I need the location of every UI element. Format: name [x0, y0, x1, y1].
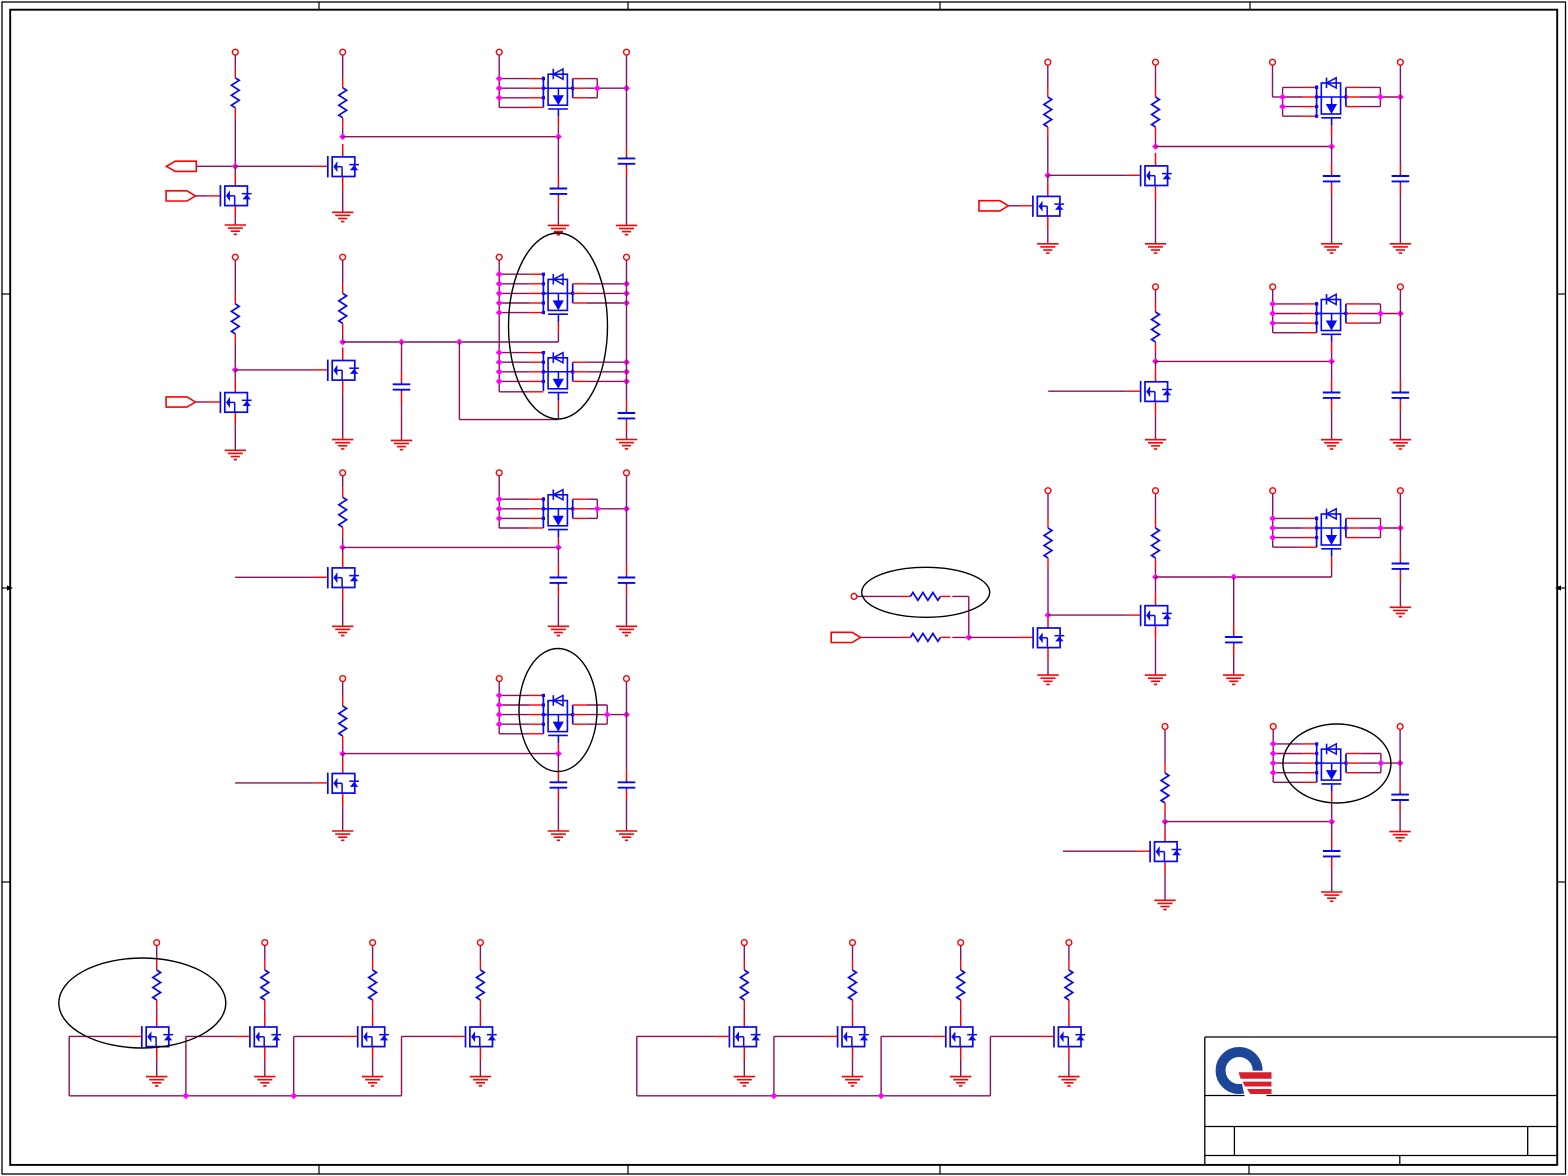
power pin P16 [1153, 59, 1159, 65]
wire [458, 342, 460, 420]
transistor QA2 [250, 1014, 281, 1060]
border tick top [627, 2, 629, 10]
border tick top [939, 2, 941, 10]
switch U7 gate lead [1331, 342, 1333, 361]
wire [372, 1010, 374, 1014]
power pin P7 [496, 254, 502, 260]
wire [342, 393, 344, 440]
net L wire [1165, 821, 1332, 823]
resistor RA2 [261, 960, 269, 1010]
transistor QA1 [142, 1014, 173, 1060]
wire pin [207, 195, 220, 197]
ground [616, 225, 637, 234]
power pin P27 [1162, 724, 1168, 730]
switch U8 output pins [1344, 518, 1400, 537]
wire [499, 106, 528, 108]
net E wire [343, 546, 559, 548]
junction on supply bus [496, 300, 503, 307]
wire [960, 1060, 962, 1077]
junction on supply bus [1270, 769, 1277, 776]
ground [1390, 440, 1411, 449]
switch U7 output pins [1344, 304, 1400, 323]
transistor QA4 [466, 1014, 497, 1060]
junction on output bus [1397, 94, 1404, 101]
junction [878, 1092, 885, 1099]
wire [196, 165, 235, 167]
ground [1390, 244, 1411, 253]
ground [548, 831, 569, 840]
gate drop wire [636, 1036, 638, 1095]
wire pin [128, 1035, 142, 1037]
wire [342, 806, 344, 831]
junction on supply bus [496, 280, 503, 287]
junction on supply bus [496, 271, 503, 278]
switch U9 gate lead [1331, 792, 1333, 822]
wire [342, 537, 344, 547]
ground [1321, 892, 1342, 901]
resistor R8 [1152, 87, 1160, 137]
wire pin [207, 401, 220, 403]
gate wire [990, 1035, 1040, 1037]
gate wire [881, 1035, 932, 1037]
border tick bottom [318, 1165, 320, 1174]
highlight ellipse 1 [509, 233, 608, 419]
capacitor C4 [618, 401, 636, 431]
transistor Q9 [1141, 369, 1172, 415]
wire [1164, 874, 1166, 900]
wire [852, 1060, 854, 1077]
wire pin [1019, 205, 1033, 207]
wire [479, 1010, 481, 1014]
supply bus [498, 55, 500, 107]
junction [398, 339, 405, 346]
junction on output bus [623, 359, 630, 366]
junction on output bus [1397, 310, 1404, 317]
output bus [626, 55, 628, 146]
power pin PA1 [154, 940, 160, 946]
wire [557, 754, 559, 770]
ground [1223, 675, 1244, 684]
gate wire [186, 1035, 236, 1037]
switch U8 gate lead [1331, 557, 1333, 577]
wire [1008, 205, 1019, 207]
transistor Q10 [1033, 615, 1064, 661]
switch U4 left pins [499, 497, 548, 528]
wire [1233, 655, 1235, 675]
resistor RA3 [369, 960, 377, 1010]
junction on supply bus [1269, 310, 1276, 317]
highlight ellipse 2 [519, 649, 597, 772]
ground [391, 440, 412, 449]
gate wire [774, 1035, 824, 1037]
power pin P4 [624, 49, 630, 55]
gate drop wire [989, 1036, 991, 1095]
wire pin [528, 106, 543, 108]
supply bus [1272, 290, 1274, 333]
wire [342, 682, 344, 697]
power pin P1 [232, 49, 238, 55]
wire [499, 733, 528, 735]
resistor R2 [339, 78, 347, 128]
junction [290, 1092, 297, 1099]
wire [1331, 194, 1333, 244]
node F junction [339, 750, 346, 757]
wire [1047, 175, 1049, 183]
wire [857, 595, 901, 597]
junction at switch output [1378, 760, 1385, 767]
junction on supply bus [496, 378, 503, 385]
wire pin [1136, 850, 1150, 852]
wire [1068, 1060, 1070, 1077]
ground [548, 626, 569, 635]
wire [156, 946, 158, 961]
junction on supply bus [496, 368, 503, 375]
junction [555, 544, 562, 551]
transistor QB2 [838, 1014, 869, 1060]
wire [1068, 1010, 1070, 1014]
ground [332, 831, 353, 840]
wire [1047, 661, 1049, 676]
wire pin [344, 1035, 358, 1037]
wire [1155, 352, 1157, 361]
switch U5 gate lead [557, 743, 559, 753]
wire [235, 782, 314, 784]
pmos switch U2 [543, 274, 572, 322]
wire pin [314, 782, 328, 784]
capacitor C3 [393, 372, 411, 402]
ground [616, 831, 637, 840]
wire [1399, 581, 1401, 607]
junction on output bus [623, 378, 630, 385]
wire [968, 596, 970, 637]
border tick right [1557, 881, 1566, 883]
wire [626, 595, 628, 626]
power pin P8 [624, 254, 630, 260]
wire [234, 260, 236, 294]
transistor QB4 [1054, 1014, 1085, 1060]
ground [1154, 900, 1175, 909]
pmos switch U6 [1317, 78, 1346, 126]
wire [401, 402, 403, 441]
switch U2 gate lead [557, 322, 559, 342]
wire [342, 547, 344, 555]
capacitor C11 [1323, 380, 1341, 410]
capacitor C15 [1323, 839, 1341, 869]
wire [1233, 577, 1235, 625]
junction on supply bus [1270, 750, 1277, 757]
junction on supply bus [496, 85, 503, 92]
wire [1331, 869, 1333, 892]
wire [342, 260, 344, 283]
capacitor C6 [618, 565, 636, 595]
switch U3 gate lead [557, 400, 559, 419]
wire [1048, 614, 1127, 616]
ground [950, 1077, 971, 1086]
wire [499, 527, 528, 529]
wire [196, 401, 208, 403]
resistor R3 [231, 294, 239, 344]
wire [1399, 812, 1401, 831]
ground [225, 450, 246, 459]
output bus [1399, 290, 1401, 380]
wire pin [1040, 1035, 1054, 1037]
wire [1155, 290, 1157, 302]
junction on supply bus [496, 692, 503, 699]
ground [1389, 832, 1410, 841]
wire [156, 1010, 158, 1014]
highlight ellipse 5 [59, 958, 226, 1048]
wire [1399, 194, 1401, 244]
wire [557, 595, 559, 626]
junction on supply bus [1269, 301, 1276, 308]
ground [1321, 244, 1342, 253]
wire [1331, 822, 1333, 839]
supply bus [1282, 87, 1284, 116]
switch U8 left pins [1273, 516, 1322, 547]
wire [1273, 96, 1283, 98]
node E junction [339, 544, 346, 551]
ground [332, 440, 353, 449]
junction on supply bus [1279, 103, 1286, 110]
resistor RA1 [153, 960, 161, 1010]
wire [1272, 65, 1274, 97]
switch U1 output pins [571, 79, 626, 98]
wire pin [236, 1035, 250, 1037]
power pin P26 [1398, 488, 1404, 494]
capacitor C9 [1323, 164, 1341, 194]
wire pin [1303, 332, 1317, 334]
node J junction [1045, 612, 1052, 619]
transistor Q11 [1141, 593, 1172, 639]
pmos switch U1 [543, 69, 572, 117]
resistor R5 [339, 487, 347, 537]
switch U1 left pins [499, 77, 548, 108]
power pin P18 [1398, 59, 1404, 65]
wire pin [1019, 636, 1033, 638]
junction [1230, 574, 1237, 581]
junction on supply bus [496, 496, 503, 503]
wire pin [1127, 174, 1141, 176]
title block [1205, 1037, 1557, 1165]
wire [372, 946, 374, 961]
gate wire [637, 1035, 716, 1037]
power pin PB1 [741, 940, 747, 946]
output bus [1399, 65, 1401, 164]
wire pin [314, 165, 328, 167]
output bus [1399, 494, 1401, 551]
wire pin [528, 733, 543, 735]
resistor R14 [1161, 763, 1169, 813]
pmos switch U5 [543, 695, 572, 743]
wire [1273, 332, 1303, 334]
wire [1047, 568, 1049, 615]
junction [1328, 143, 1335, 150]
ground [332, 626, 353, 635]
port IN3 [979, 201, 1008, 211]
wire pin [1303, 546, 1317, 548]
gate chain bus [637, 1095, 991, 1097]
port IN2 [166, 397, 195, 407]
junction on supply bus [1279, 94, 1286, 101]
pmos switch U7 [1317, 294, 1346, 342]
resistor R6 [339, 696, 347, 746]
wire [342, 754, 344, 761]
gate wire [69, 1035, 128, 1037]
border tick top [1249, 2, 1251, 10]
switch U3 left pins [499, 351, 548, 391]
junction on supply bus [1270, 741, 1277, 748]
capacitor C7 [550, 770, 568, 800]
junction [456, 339, 463, 346]
supply bus [1272, 494, 1274, 548]
input pin P22 [851, 594, 857, 600]
gate chain bus [69, 1095, 401, 1097]
junction on output bus [623, 290, 630, 297]
power pin PB2 [850, 940, 856, 946]
switch U9 output pins [1344, 754, 1400, 773]
junction on supply bus [1269, 534, 1276, 541]
border arrow right [1555, 585, 1566, 590]
node L junction [1162, 818, 1169, 825]
wire [264, 1010, 266, 1014]
resistor R11 [900, 634, 950, 642]
capacitor C14 [1392, 551, 1410, 581]
port OUT1 [166, 161, 196, 171]
switch U4 gate lead [557, 537, 559, 547]
capacitor C2 [618, 146, 636, 176]
power pin P25 [1270, 488, 1276, 494]
capacitor C13 [1225, 625, 1243, 655]
node H junction [1044, 172, 1051, 179]
junction at switch output [1377, 525, 1384, 532]
ground [842, 1077, 863, 1086]
supply bus [498, 260, 500, 392]
power pin P29 [1397, 724, 1403, 730]
resistor RB4 [1065, 960, 1073, 1010]
wire [459, 419, 558, 421]
ground [146, 1077, 167, 1086]
junction on supply bus [496, 702, 503, 709]
wire [557, 137, 559, 176]
junction on supply bus [496, 75, 503, 82]
ground [1145, 440, 1166, 449]
wire [1155, 361, 1157, 368]
wire [1155, 568, 1157, 577]
node I junction [1152, 358, 1159, 365]
wire [1155, 414, 1157, 439]
power pin P3 [496, 49, 502, 55]
wire [852, 946, 854, 961]
wire [342, 746, 344, 754]
net F wire [343, 753, 559, 755]
wire [401, 342, 403, 372]
capacitor C10 [1392, 164, 1410, 194]
border tick bottom [627, 1165, 629, 1174]
pmos switch U3 [543, 352, 572, 400]
gate drop wire [880, 1036, 882, 1095]
junction on output bus [623, 300, 630, 307]
junction on supply bus [496, 721, 503, 728]
resistor R10 [900, 593, 950, 601]
switch U6 output pins [1344, 87, 1400, 106]
capacitor C12 [1392, 380, 1410, 410]
node G junction [1152, 143, 1159, 150]
border tick bottom [1248, 1165, 1250, 1174]
ground [548, 225, 569, 234]
ground [1058, 1077, 1079, 1086]
gate drop wire [293, 1036, 295, 1095]
wire [235, 369, 314, 371]
wire [1047, 494, 1049, 518]
net I wire [1156, 360, 1332, 362]
power pin P10 [496, 470, 502, 476]
wire pin [824, 1035, 838, 1037]
output bus [626, 260, 628, 401]
wire [1068, 946, 1070, 961]
transistor QA3 [358, 1014, 389, 1060]
power pin P13 [496, 676, 502, 682]
wire [235, 165, 314, 167]
power pin P21 [1398, 284, 1404, 290]
transistor Q4 [328, 348, 359, 394]
power pin P11 [624, 470, 630, 476]
gate drop wire [773, 1036, 775, 1095]
wire [1155, 494, 1157, 518]
wire [969, 636, 1019, 638]
junction on output bus [623, 505, 630, 512]
wire [342, 601, 344, 627]
junction on supply bus [496, 515, 503, 522]
wire [234, 118, 236, 167]
junction on supply bus [496, 505, 503, 512]
wire [234, 370, 236, 380]
wire pin [314, 576, 328, 578]
power pin PA3 [370, 940, 376, 946]
junction on output bus [1397, 760, 1404, 767]
wire pin [314, 369, 328, 371]
wire [1273, 781, 1302, 783]
capacitor C8 [618, 770, 636, 800]
border tick top [318, 2, 320, 10]
wire [743, 1060, 745, 1077]
wire [234, 166, 236, 173]
junction [965, 634, 972, 641]
border arrow left [2, 585, 13, 590]
pmos switch U8 [1317, 509, 1346, 557]
wire [342, 333, 344, 342]
port IN4 [831, 632, 860, 642]
node K junction [1152, 574, 1159, 581]
highlight ellipse 4 [1283, 724, 1391, 803]
wire [1155, 65, 1157, 87]
node C junction [232, 367, 239, 374]
junction on supply bus [496, 94, 503, 101]
gate wire [294, 1035, 344, 1037]
junction on output bus [1397, 525, 1404, 532]
junction on supply bus [496, 309, 503, 316]
wire [626, 800, 628, 831]
wire [234, 219, 236, 225]
wire [952, 595, 969, 597]
wire [499, 391, 528, 393]
wire pin [1303, 781, 1317, 783]
junction on supply bus [496, 711, 503, 718]
node B junction [339, 133, 346, 140]
wire [342, 476, 344, 488]
resistor R7 [1044, 87, 1052, 137]
output bus [626, 476, 628, 565]
resistor RB2 [849, 960, 857, 1010]
